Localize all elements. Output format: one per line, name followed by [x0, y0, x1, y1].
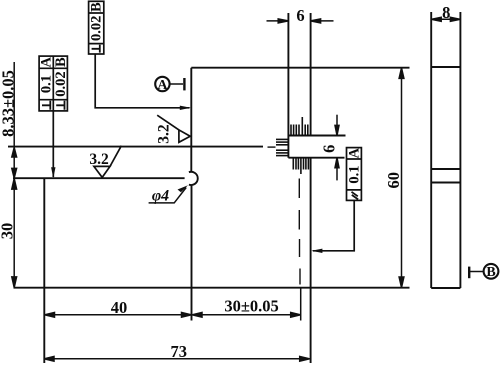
front view top edge: [191, 67, 409, 69]
svg-text:3.2: 3.2: [89, 151, 109, 168]
centerline dash of pin: [268, 146, 276, 148]
svg-text:A: A: [157, 78, 168, 93]
dim 73 line: [44, 358, 310, 360]
phi4 hole label: [149, 188, 187, 203]
front view left vertical edge extension below notch: [191, 185, 193, 321]
centerline solid extension to 30 dim: [300, 289, 302, 321]
feature control frame FCF1 (perp 0.02 B) top: [89, 1, 190, 108]
side view groove line upper: [431, 168, 460, 170]
tab right line: [310, 13, 312, 136]
svg-text:30: 30: [0, 223, 16, 240]
svg-text:3.2: 3.2: [155, 124, 172, 144]
feature control frame FCF2 (double: perp 0.1 A | perp 0.02 B): [39, 56, 67, 177]
svg-text:B: B: [89, 2, 105, 12]
svg-text:0.1: 0.1: [347, 165, 363, 183]
svg-text:8: 8: [442, 3, 450, 22]
dashed centerline below band: [298, 179, 301, 285]
dim 8 line (side view): [431, 18, 460, 20]
surface roughness 3.2 on step surface: [94, 146, 122, 178]
side view right edge: [459, 12, 461, 288]
right edge of part below band + extension: [310, 158, 312, 363]
FCF3 leader arrowhead: [311, 249, 322, 253]
svg-text:6: 6: [320, 145, 339, 153]
FCF1 perpendicular symbol: [92, 45, 100, 53]
FCF1 leader arrowhead: [180, 106, 191, 110]
band bottom line: [288, 157, 344, 159]
svg-text:φ4: φ4: [152, 188, 169, 205]
dim 40 line: [45, 314, 192, 316]
FCF2 leader arrowhead: [51, 167, 55, 178]
dim 8.33+-0.05 line: [13, 62, 15, 178]
dim 6 band lower arrow: [336, 159, 338, 181]
datum A symbol: [155, 77, 185, 91]
svg-text:8.33±0.05: 8.33±0.05: [0, 70, 17, 137]
dim 6 band upper arrow: [336, 115, 338, 135]
svg-text:6: 6: [296, 6, 304, 25]
serration comb marks below band: [292, 158, 294, 170]
FCF3 parallelism symbol: [352, 192, 359, 200]
svg-text:0.02: 0.02: [89, 16, 105, 41]
serration comb marks left of band: [276, 138, 288, 140]
horizontal edge at mid (8.33 upper surface): [8, 146, 263, 148]
dim 6 top left arrow: [267, 20, 288, 22]
dim 30 line (left): [13, 178, 15, 287]
bottom edge of part: [14, 287, 410, 289]
tab left line: [287, 13, 289, 158]
feature control frame FCF3 (parallel 0.1 A) right: [313, 148, 362, 251]
svg-text:B: B: [53, 57, 69, 67]
front view upper-left vertical edge: [190, 68, 192, 172]
step edge line: [13, 177, 185, 179]
svg-text:60: 60: [384, 172, 403, 189]
svg-text:73: 73: [171, 342, 188, 361]
FCF3 leader: [313, 200, 354, 250]
FCF2 perpendicular symbols: [42, 101, 65, 110]
side view groove line lower: [431, 182, 460, 184]
svg-text:40: 40: [111, 298, 128, 317]
side view left edge: [430, 12, 432, 288]
svg-text:0.02: 0.02: [53, 71, 69, 96]
FCF1 leader: [95, 54, 189, 108]
side view bottom edge: [431, 287, 460, 289]
datum B symbol: [468, 264, 498, 279]
FCF2 leader: [52, 111, 54, 177]
svg-text:30±0.05: 30±0.05: [224, 297, 278, 316]
serration comb marks above band: [276, 117, 308, 321]
band top line: [288, 135, 345, 137]
dim 30+-0.05 line: [192, 314, 301, 316]
side view top edge of main body: [431, 66, 460, 68]
svg-text:A: A: [347, 148, 363, 159]
dim 6 top right arrow: [312, 20, 334, 22]
side view: [431, 12, 460, 288]
surface roughness 3.2 rotated on left vertical surface: [157, 115, 190, 142]
lower-left vertical edge + extension: [43, 178, 45, 363]
svg-text:B: B: [486, 265, 495, 280]
dim 60 line: [401, 68, 403, 288]
hole notch arc (phi4): [189, 172, 198, 185]
